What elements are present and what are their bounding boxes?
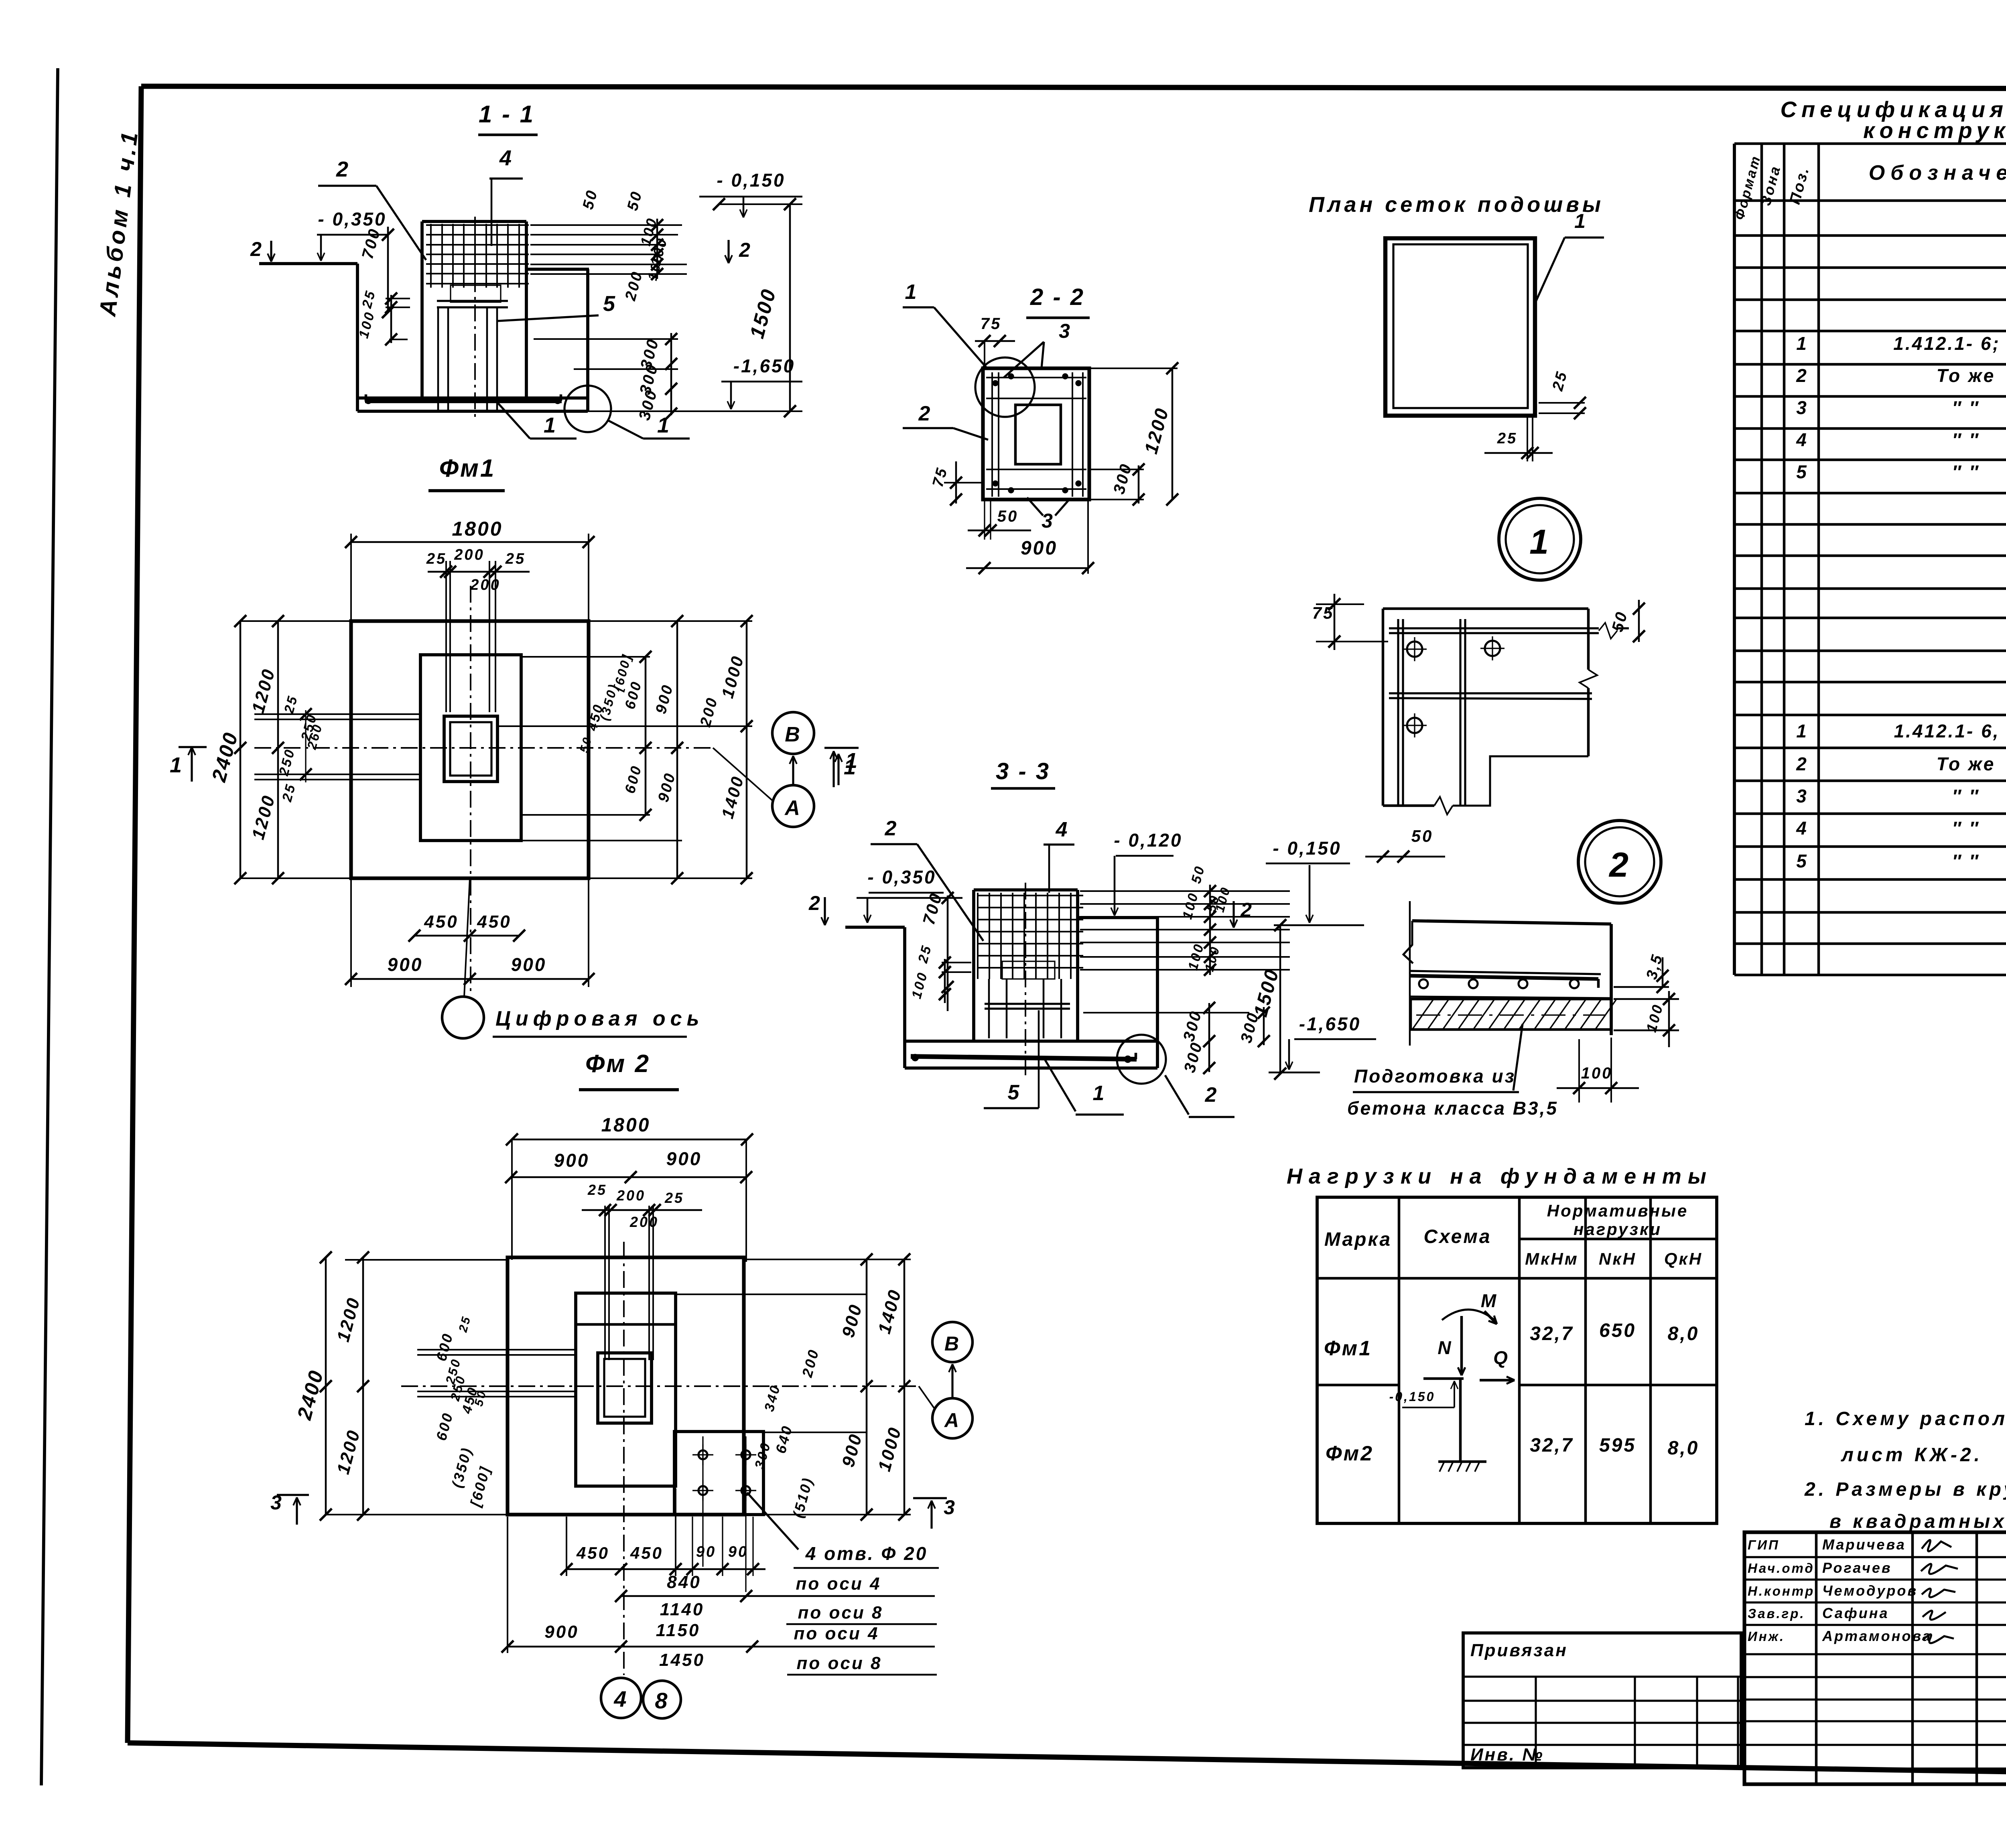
sheet edge left <box>41 68 58 1785</box>
detail2 slab bottom and rebar <box>1411 971 1601 974</box>
svg-text:450: 450 <box>576 1543 609 1562</box>
svg-text:1: 1 <box>1529 523 1550 561</box>
spec table grid <box>1734 142 2006 145</box>
svg-text:Нормативные: Нормативные <box>1547 1201 1688 1220</box>
loads table grid <box>1317 1197 1717 1523</box>
Fm2 footing outer <box>508 1257 744 1515</box>
svg-text:2: 2 <box>739 239 752 261</box>
svg-text:N: N <box>1437 1337 1452 1358</box>
3-3 dims 25 100 left <box>942 962 971 963</box>
svg-text:Марка: Марка <box>1324 1229 1392 1250</box>
svg-text:4 отв. Ф 20: 4 отв. Ф 20 <box>805 1543 928 1564</box>
svg-text:- 0,350: - 0,350 <box>867 867 936 887</box>
2-2 mesh lines <box>991 372 993 497</box>
svg-text:Фм1: Фм1 <box>1324 1337 1372 1360</box>
svg-text:″ ″: ″ ″ <box>1952 429 1980 450</box>
svg-text:1: 1 <box>1574 210 1587 232</box>
Fm1 outer footing <box>351 621 589 878</box>
Fm1 bottom dims 900 900 <box>351 978 589 980</box>
svg-text:- 0,120: - 0,120 <box>1114 830 1182 851</box>
svg-text:Рогачев: Рогачев <box>1822 1560 1892 1576</box>
1-1 dim 1500 <box>719 203 802 205</box>
svg-text:″ ″: ″ ″ <box>1952 786 1980 806</box>
svg-text:1: 1 <box>1796 333 1808 354</box>
signature columns <box>1815 1532 1818 1784</box>
1-1 dims 300 <box>534 338 678 340</box>
1-1 centerline <box>474 217 476 419</box>
1-1 mesh dashed box <box>451 285 501 302</box>
svg-text:4: 4 <box>1056 818 1069 841</box>
Fm1 section mark 1 right <box>837 754 839 785</box>
svg-text:900: 900 <box>388 954 423 975</box>
Fm2 column core <box>598 1353 652 1423</box>
svg-text:-1,650: -1,650 <box>733 355 795 376</box>
svg-text:100: 100 <box>1581 1064 1613 1082</box>
svg-text:Фм1: Фм1 <box>439 455 496 482</box>
3-3 column <box>972 890 975 1041</box>
detail2 dim 100 bottom <box>1578 1039 1580 1103</box>
detail1 concrete corner <box>1382 609 1385 806</box>
detail1 bar sections <box>1407 642 1422 657</box>
Fm2 centerlines <box>401 1385 919 1387</box>
Fm1 anchor bolts <box>445 561 447 712</box>
svg-text:1. Схему расположения фундам: 1. Схему расположения фундаментов см. <box>1805 1408 2006 1430</box>
svg-text:3: 3 <box>1042 510 1054 532</box>
svg-text:бетона класса В3,5: бетона класса В3,5 <box>1347 1098 1558 1119</box>
svg-text:8,0: 8,0 <box>1668 1438 1699 1459</box>
Fm1 left dims 1200 <box>277 621 279 878</box>
svg-text:900: 900 <box>554 1150 590 1171</box>
1-1 detail circle <box>564 386 611 432</box>
svg-text:ГИП: ГИП <box>1748 1537 1780 1552</box>
detail2 rebar dots <box>1419 979 1428 988</box>
detail marker circle 1 <box>1499 498 1581 580</box>
1-1 dims 25 100 <box>386 298 410 299</box>
1-1 column bars <box>437 307 439 410</box>
Fm1 right dim lines <box>645 657 647 815</box>
svg-text:25: 25 <box>426 550 447 567</box>
svg-text:1: 1 <box>1093 1082 1106 1105</box>
svg-text:Инж.: Инж. <box>1748 1629 1785 1644</box>
1-1 slab rebar <box>365 398 562 403</box>
Fm2 mesh arms left <box>417 1349 577 1350</box>
svg-text:Нач.отд.: Нач.отд. <box>1748 1561 1820 1576</box>
svg-text:2 - 2: 2 - 2 <box>1030 284 1085 310</box>
Fm2 right extensions <box>746 1259 911 1260</box>
svg-text:по оси 4: по оси 4 <box>794 1624 879 1643</box>
3-3 mesh dashed box <box>1002 961 1055 979</box>
svg-text:200: 200 <box>629 1214 659 1230</box>
Fm2 right dim 1400 1000 <box>904 1259 906 1515</box>
svg-text:Инв. №: Инв. № <box>1470 1745 1544 1765</box>
Fm2 anchor bolt circles <box>698 1450 707 1459</box>
svg-text:МкНм: МкНм <box>1525 1249 1579 1268</box>
svg-text:3: 3 <box>1059 320 1072 342</box>
svg-text:Нагрузки на фундаменты: Нагрузки на фундаменты <box>1287 1164 1713 1188</box>
svg-text:-0,150: -0,150 <box>1389 1389 1435 1404</box>
svg-text:M: M <box>1481 1290 1498 1311</box>
detail2 dim 3,5 <box>1614 986 1669 988</box>
svg-text:Фм2: Фм2 <box>1326 1442 1374 1465</box>
title block outer <box>1744 1532 2006 1784</box>
detail2 left extension line <box>1409 901 1411 1046</box>
3-3 dim 1500 <box>1279 925 1281 1074</box>
svg-text:25: 25 <box>505 550 526 567</box>
svg-text:595: 595 <box>1599 1435 1636 1456</box>
Fm1 left dim 2400 <box>240 621 242 878</box>
svg-text:900: 900 <box>666 1148 702 1169</box>
svg-text:1: 1 <box>844 755 857 779</box>
svg-text:4: 4 <box>613 1686 628 1712</box>
svg-text:3: 3 <box>944 1496 956 1519</box>
svg-text:2: 2 <box>1608 846 1630 884</box>
3-3 dims 300 <box>1083 1012 1249 1013</box>
svg-text:1: 1 <box>905 280 918 304</box>
svg-text:1: 1 <box>544 413 557 437</box>
3-3 slab rebar <box>911 1056 1137 1059</box>
1-1 ground left <box>259 262 357 265</box>
svg-text:8: 8 <box>655 1688 669 1713</box>
Fm2 left dim 2400 <box>325 1257 327 1515</box>
svg-text:50: 50 <box>997 508 1019 525</box>
svg-text:″ ″: ″ ″ <box>1952 461 1980 482</box>
loads scheme sketch <box>1442 1310 1494 1320</box>
svg-text:″ ″: ″ ″ <box>1952 818 1980 839</box>
svg-text:1: 1 <box>170 753 183 777</box>
svg-text:лист КЖ-2.: лист КЖ-2. <box>1841 1444 1983 1466</box>
Fm1 right extension lines <box>589 620 752 622</box>
svg-text:1.412.1- 6, в.2: 1.412.1- 6, в.2 <box>1894 721 2006 741</box>
detail2 band bottom <box>1411 997 1611 998</box>
svg-text:2: 2 <box>1796 365 1808 386</box>
svg-text:1140: 1140 <box>660 1600 705 1619</box>
svg-text:650: 650 <box>1599 1320 1636 1341</box>
svg-text:″ ″: ″ ″ <box>1952 397 1980 418</box>
svg-text:900: 900 <box>544 1622 579 1642</box>
svg-text:2: 2 <box>336 157 350 181</box>
1-1 mesh extension lines right <box>530 224 682 226</box>
svg-text:Сафина: Сафина <box>1822 1605 1889 1621</box>
3-3 column bars <box>988 979 990 1038</box>
svg-text:Маричева: Маричева <box>1822 1536 1906 1553</box>
svg-text:План сеток подошвы: План сеток подошвы <box>1309 193 1604 217</box>
frame bottom <box>128 1743 2006 1780</box>
svg-text:Фм 2: Фм 2 <box>585 1050 650 1078</box>
svg-text:″ ″: ″ ″ <box>1952 851 1980 871</box>
detail marker circle 2 <box>1578 820 1661 903</box>
1-1 column mesh <box>426 224 529 226</box>
1-1 right small dims <box>656 219 658 279</box>
svg-text:75: 75 <box>981 315 1002 333</box>
svg-text:1450: 1450 <box>659 1650 705 1670</box>
3-3 section mark 1 top-left <box>824 747 859 749</box>
svg-text:5: 5 <box>603 292 617 316</box>
detail1 horizontal bar 1 <box>1389 627 1599 629</box>
svg-text:5: 5 <box>1796 461 1808 482</box>
3-3 column mesh <box>978 895 1083 896</box>
3-3 right platform <box>1078 916 1157 919</box>
3-3 right small dims <box>1209 885 1211 975</box>
svg-text:90: 90 <box>696 1543 716 1560</box>
svg-text:- 0,150: - 0,150 <box>717 170 785 191</box>
signature scribbles <box>1921 1540 1958 1643</box>
3-3 platform mesh extensions <box>1080 890 1290 892</box>
svg-text:50: 50 <box>1411 827 1433 845</box>
Fm2 axis circles 4 8 <box>601 1678 641 1718</box>
detail2 prep dashdot <box>1416 1014 1605 1015</box>
svg-text:2: 2 <box>1240 899 1253 921</box>
svg-text:- 0,150: - 0,150 <box>1273 838 1341 859</box>
svg-text:В: В <box>944 1332 960 1355</box>
Fm1 centerlines <box>470 586 471 995</box>
svg-text:2: 2 <box>808 892 822 914</box>
svg-text:5: 5 <box>1008 1081 1021 1104</box>
svg-text:3 - 3: 3 - 3 <box>996 758 1050 784</box>
detail2 leader text <box>1513 1024 1523 1091</box>
svg-text:Обозначение: Обозначение <box>1869 161 2006 185</box>
plan setok square <box>1385 238 1535 416</box>
Fm1 pedestal <box>420 655 521 841</box>
svg-text:Цифровая ось: Цифровая ось <box>495 1007 704 1030</box>
svg-text:840: 840 <box>667 1572 701 1592</box>
1-1 pit outline <box>356 264 359 411</box>
svg-text:- 0,350: - 0,350 <box>318 209 386 229</box>
svg-text:200: 200 <box>454 546 484 563</box>
svg-text:2: 2 <box>1796 753 1808 774</box>
frame top <box>141 86 2006 89</box>
Fm1 axis circle bottom <box>464 878 470 997</box>
svg-text:Чемодуров: Чемодуров <box>1822 1582 1918 1599</box>
svg-text:900: 900 <box>1021 538 1058 559</box>
svg-text:Привязан: Привязан <box>1470 1641 1568 1660</box>
svg-text:А: А <box>944 1409 960 1432</box>
stamp привязан box <box>1463 1633 1741 1768</box>
svg-text:2: 2 <box>918 402 932 425</box>
svg-text:2: 2 <box>250 238 263 260</box>
1-1 column <box>420 221 424 398</box>
svg-text:Подготовка из: Подготовка из <box>1354 1066 1516 1086</box>
svg-text:3: 3 <box>1796 786 1808 806</box>
svg-text:Q: Q <box>1493 1347 1509 1368</box>
Fm1 axis circles B A <box>772 712 814 754</box>
svg-text:То же: То же <box>1937 365 1996 386</box>
svg-text:200: 200 <box>616 1187 646 1204</box>
svg-text:450: 450 <box>630 1543 663 1562</box>
Fm2 pedestal <box>576 1293 676 1486</box>
svg-text:по оси 8: по оси 8 <box>798 1603 883 1623</box>
svg-text:А: А <box>784 796 802 820</box>
1-1 lower mesh <box>437 300 508 302</box>
3-3 lower mesh <box>985 1003 1070 1005</box>
svg-text:90: 90 <box>728 1543 748 1560</box>
3-3 detail circle <box>1117 1035 1166 1084</box>
svg-text:900: 900 <box>511 954 547 975</box>
Fm1 column core <box>444 716 497 782</box>
Fm2 bolt leader 4 otv <box>747 1493 798 1549</box>
svg-text:1 - 1: 1 - 1 <box>479 101 535 128</box>
svg-text:1800: 1800 <box>601 1115 651 1136</box>
detail2 dim 100 right <box>1614 998 1679 1000</box>
Fm2 left dims 1200 1200 <box>362 1257 364 1515</box>
2-2 detail circle <box>975 357 1035 417</box>
3-3 ground left <box>845 926 905 929</box>
svg-text:Схема: Схема <box>1423 1226 1491 1247</box>
detail1 vertical bar 1 <box>1397 619 1399 806</box>
svg-text:8,0: 8,0 <box>1668 1323 1699 1344</box>
Fm2 left extension <box>345 1259 508 1261</box>
svg-text:4: 4 <box>499 146 513 170</box>
detail2 slab outline <box>1412 921 1611 924</box>
svg-text:QкН: QкН <box>1664 1249 1703 1269</box>
svg-text:25: 25 <box>664 1190 684 1206</box>
Fm2 bolt axes <box>702 1436 703 1567</box>
svg-text:по оси 4: по оси 4 <box>796 1574 881 1594</box>
1-1 leader 1 left <box>496 401 530 439</box>
svg-text:4: 4 <box>1796 429 1808 450</box>
svg-text:2: 2 <box>885 817 898 840</box>
svg-text:1: 1 <box>1796 721 1808 741</box>
Fm2 anchor bolts <box>604 1206 606 1360</box>
svg-text:Зав.гр.: Зав.гр. <box>1748 1606 1805 1621</box>
svg-text:25: 25 <box>1497 430 1517 447</box>
svg-text:нагрузки: нагрузки <box>1574 1220 1662 1239</box>
svg-text:32,7: 32,7 <box>1530 1323 1574 1344</box>
Fm1 bottom dims 450 450 <box>414 935 519 937</box>
Fm2 bottom dim tier1 <box>566 1568 765 1570</box>
svg-text:1.412.1- 6; в.2: 1.412.1- 6; в.2 <box>1893 333 2006 354</box>
svg-text:NкН: NкН <box>1599 1249 1636 1268</box>
svg-text:-1,650: -1,650 <box>1299 1013 1361 1034</box>
Fm2 bottom dim tier3 <box>508 1646 935 1648</box>
Fm1 mesh arms left <box>254 713 421 715</box>
3-3 pit outline <box>903 927 906 1068</box>
svg-text:Н.контр.: Н.контр. <box>1748 1584 1820 1598</box>
Fm2 bottom dim tier2 <box>621 1595 935 1597</box>
svg-text:1800: 1800 <box>452 518 503 540</box>
detail1 horizontal bar 2 <box>1389 692 1592 694</box>
2-2 outer rect <box>983 368 1089 500</box>
svg-text:450: 450 <box>477 912 511 932</box>
svg-text:2: 2 <box>1205 1083 1218 1107</box>
detail2 prep layer hatched <box>1411 999 1611 1030</box>
frame left <box>128 86 141 1743</box>
svg-text:3: 3 <box>1796 397 1808 418</box>
Fm2 right dim 900 900 <box>866 1259 868 1515</box>
svg-text:1150: 1150 <box>656 1621 700 1640</box>
1-1 leader 1 right <box>607 420 643 439</box>
Fm2 bolt plate <box>674 1432 763 1515</box>
3-3 centerline <box>1025 883 1026 1075</box>
svg-text:То же: То же <box>1937 753 1996 774</box>
svg-text:4: 4 <box>1796 818 1808 839</box>
svg-text:по оси 8: по оси 8 <box>797 1653 882 1673</box>
svg-text:конструкции Фм 1; Фм 2: конструкции Фм 1; Фм 2 <box>1863 118 2006 143</box>
detail1 vertical bar 2 <box>1459 619 1461 806</box>
svg-text:32,7: 32,7 <box>1530 1435 1574 1456</box>
svg-text:5: 5 <box>1796 851 1808 871</box>
2-2 core <box>1015 405 1061 464</box>
svg-text:450: 450 <box>424 912 458 932</box>
svg-text:25: 25 <box>587 1182 607 1198</box>
2-2 corner dots <box>993 380 998 386</box>
svg-text:В: В <box>785 723 802 746</box>
svg-text:Артамонова: Артамонова <box>1822 1628 1932 1644</box>
Fm2 axis circles B A <box>932 1322 973 1362</box>
